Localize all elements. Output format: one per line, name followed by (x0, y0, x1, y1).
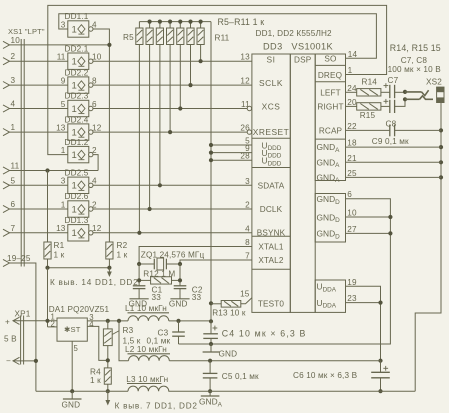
wire: XTAL1 to crystal (139, 247, 252, 265)
svg-text:6: 6 (11, 200, 16, 209)
svg-text:DD2.5: DD2.5 (65, 169, 89, 178)
svg-text:+: + (5, 318, 10, 327)
wire: DD2.3 output to XCS (93, 108, 247, 110)
wire: XTAL2 to crystal (180, 260, 252, 264)
wire: DD1.3 output to BSYNK (93, 232, 252, 234)
svg-text:7: 7 (11, 224, 16, 233)
svg-text:C6 10 мк × 6,3 В: C6 10 мк × 6,3 В (293, 371, 358, 380)
svg-text:GND: GND (62, 401, 81, 410)
capacitor C3 (147, 321, 185, 346)
svg-text:1 к: 1 к (90, 376, 101, 385)
svg-text:25: 25 (347, 169, 357, 178)
svg-text:1: 1 (61, 146, 66, 155)
label C7 C8 value (388, 56, 442, 74)
svg-text:4: 4 (92, 20, 97, 29)
resistor R14 (346, 78, 381, 96)
chip DD3 right pin names (317, 54, 344, 309)
inverter DD2.5 (61, 169, 97, 194)
capacitor C5 (203, 361, 259, 394)
svg-text:24: 24 (347, 84, 357, 93)
label R5-R11 value (218, 17, 265, 27)
svg-text:5: 5 (74, 344, 79, 353)
wire: LPT pin 7 (3, 224, 68, 237)
wire: DD2.5 output to SDATA (93, 184, 252, 186)
ground under C1 (129, 289, 149, 309)
svg-text:1: 1 (348, 66, 353, 75)
capacitor C4 (203, 321, 306, 346)
wire: LPT pin 11 (3, 162, 98, 175)
svg-text:DD2.6: DD2.6 (65, 192, 89, 201)
svg-text:1: 1 (71, 150, 76, 161)
wire: DD2.4 output to XRESET (93, 131, 247, 133)
ground DA1 (62, 391, 82, 409)
svg-text:C4 10 мк × 6,3 В: C4 10 мк × 6,3 В (222, 329, 307, 339)
svg-text:4: 4 (89, 320, 94, 329)
svg-text:DREQ: DREQ (318, 71, 342, 80)
svg-text:R14, R15 15: R14, R15 15 (390, 43, 441, 53)
svg-text:ZQ1 24,576 МГц: ZQ1 24,576 МГц (141, 251, 205, 260)
svg-text:18: 18 (347, 139, 357, 148)
svg-text:6: 6 (92, 100, 97, 109)
wire: LPT pin 3 (3, 76, 68, 89)
svg-text:R1: R1 (54, 241, 65, 250)
wire: DA1 pin4 sense (87, 326, 108, 360)
svg-text:1: 1 (11, 123, 16, 132)
wire: LPT pin 1 (3, 123, 68, 136)
svg-text:SDATA: SDATA (258, 181, 285, 190)
wire: LPT pin 5 (3, 176, 68, 189)
svg-text:✱ST: ✱ST (64, 325, 81, 334)
capacitor C7 (381, 76, 405, 98)
wire: UDDA bus (346, 286, 383, 363)
wire: DD2.2 output to SCLK (93, 84, 252, 86)
svg-text:21: 21 (347, 154, 357, 163)
svg-text:DA1 PQ20VZ51: DA1 PQ20VZ51 (49, 305, 110, 314)
svg-text:11: 11 (11, 162, 20, 171)
svg-text:DCLK: DCLK (260, 205, 283, 214)
svg-text:3: 3 (11, 76, 16, 85)
svg-text:1: 1 (61, 200, 66, 209)
svg-text:XTAL2: XTAL2 (258, 256, 283, 265)
capacitor C8 (381, 99, 405, 129)
wire: DD2.1 output to SI (93, 60, 252, 62)
wire: XS2 sleeve ground bus (415, 103, 443, 392)
svg-text:GND: GND (169, 300, 188, 309)
svg-text:23: 23 (347, 294, 357, 303)
svg-text:R5: R5 (123, 33, 134, 42)
svg-text:DD2.1: DD2.1 (65, 44, 89, 53)
svg-text:DD2.2: DD2.2 (65, 68, 89, 77)
inverter DD1.1 (61, 12, 97, 37)
svg-text:1 к: 1 к (54, 251, 65, 260)
svg-text:C7, C8: C7, C8 (401, 56, 428, 65)
svg-text:R15: R15 (360, 111, 376, 120)
svg-text:XCS: XCS (262, 102, 281, 112)
svg-text:К выв. 7 DD1, DD2: К выв. 7 DD1, DD2 (115, 402, 198, 411)
chip DD3 left pin names (253, 54, 290, 308)
svg-text:DD1.1: DD1.1 (65, 12, 89, 21)
resistor R4 (90, 368, 111, 394)
svg-text:C9 0,1 мк: C9 0,1 мк (372, 137, 409, 146)
wire: LPT pin 2 (3, 52, 68, 65)
wire: DD1.1 output to LPT pin 10 and R2 (93, 29, 112, 242)
svg-text:DD1.3: DD1.3 (65, 216, 89, 225)
svg-text:XS2: XS2 (426, 78, 442, 87)
svg-text:28: 28 (240, 152, 250, 161)
svg-text:−: − (6, 357, 11, 366)
svg-text:C5 0,1 мк: C5 0,1 мк (222, 372, 259, 381)
svg-text:L3 10 мкГн: L3 10 мкГн (126, 375, 168, 384)
wire: DA1 pin3 3.3V output (87, 319, 128, 323)
svg-text:7: 7 (245, 252, 250, 261)
svg-text:10: 10 (11, 36, 21, 45)
capacitor C1 (133, 286, 163, 303)
wire: ground rail (36, 390, 415, 392)
svg-text:100 мк × 10 В: 100 мк × 10 В (388, 65, 442, 74)
pin bubble XCS (247, 106, 251, 110)
connector XS1 LPT label (8, 27, 45, 36)
svg-text:XS1 "LPT": XS1 "LPT" (8, 27, 45, 36)
svg-text:DD3 VS1001K: DD3 VS1001K (263, 42, 334, 52)
ground under C4 (203, 344, 238, 359)
label DD1 DD2 type (256, 29, 333, 38)
svg-text:SCLK: SCLK (259, 78, 283, 88)
svg-text:1: 1 (71, 24, 76, 35)
svg-text:1: 1 (71, 57, 76, 68)
wire: GNDA pin 21 (346, 161, 442, 163)
svg-text:DD2.4: DD2.4 (65, 115, 89, 124)
resistor R3 (103, 321, 140, 368)
wire: UDDD 3.3V vertical bus (209, 22, 252, 322)
resistor R1 (44, 171, 65, 260)
svg-text:R13 10 к: R13 10 к (212, 309, 246, 318)
svg-text:L2 10 мкГн: L2 10 мкГн (125, 345, 167, 354)
svg-text:C7: C7 (388, 76, 399, 85)
resistor network R5-R11 (123, 20, 230, 235)
svg-text:12: 12 (92, 124, 102, 133)
svg-text:11: 11 (57, 53, 66, 62)
svg-text:XTAL1: XTAL1 (258, 243, 283, 252)
wire: LPT pins 19-25 to ground rail (3, 254, 36, 391)
svg-text:1 к: 1 к (117, 251, 128, 260)
svg-text:R5–R11 1 к: R5–R11 1 к (218, 17, 265, 27)
ground GNDA (199, 391, 223, 408)
chip DD3 left pin numbers (240, 53, 250, 299)
svg-text:1: 1 (71, 204, 76, 215)
op-amp U1 chip DD3 body (252, 54, 346, 312)
svg-text:13: 13 (56, 124, 66, 133)
wire: GNDA pin 25 (346, 176, 442, 178)
svg-text:4: 4 (245, 224, 250, 233)
wire: DD1.2 output to LPT pin 11 (45, 155, 98, 173)
resistor R2 (106, 241, 128, 260)
svg-text:5: 5 (61, 100, 66, 109)
capacitor C9 (346, 125, 442, 147)
wire: GNDA pin 18 (346, 146, 442, 148)
svg-text:3: 3 (61, 20, 66, 29)
svg-text:13: 13 (240, 53, 250, 62)
svg-text:2: 2 (92, 146, 97, 155)
wire: DD2.6 output to DCLK (93, 208, 252, 210)
svg-text:6: 6 (347, 190, 352, 199)
svg-text:DD1.2: DD1.2 (65, 138, 89, 147)
svg-text:XRESET: XRESET (253, 127, 290, 137)
svg-text:DD1, DD2 К555ЛН2: DD1, DD2 К555ЛН2 (256, 29, 333, 38)
svg-text:5 В: 5 В (4, 335, 17, 344)
svg-text:GND: GND (219, 350, 238, 359)
inductor L2 (119, 321, 381, 363)
resistor R12 (137, 264, 182, 286)
wire: LPT pin 10 (3, 36, 109, 49)
wire: LPT pin 6 (3, 200, 68, 213)
wire: GNDD bus to ground (179, 199, 393, 344)
power: to pin 7 of DD1 DD2 (105, 391, 197, 410)
svg-text:10: 10 (92, 53, 102, 62)
crystal ZQ1 label (141, 251, 205, 260)
inverter DD1.3 (56, 216, 102, 241)
svg-text:R14: R14 (362, 78, 378, 87)
svg-text:RIGHT: RIGHT (317, 102, 343, 111)
inductor L1 (125, 304, 213, 323)
svg-text:2: 2 (51, 320, 56, 329)
crystal ZQ1 (137, 258, 182, 270)
svg-text:3: 3 (245, 177, 250, 186)
svg-text:LEFT: LEFT (320, 88, 341, 97)
svg-text:2: 2 (245, 201, 250, 210)
svg-text:2: 2 (92, 200, 97, 209)
ground under C2 (169, 289, 190, 309)
connector XS2 jack (403, 78, 444, 103)
svg-text:14: 14 (348, 50, 358, 59)
svg-text:R11: R11 (215, 34, 230, 43)
svg-text:BSYNK: BSYNK (257, 229, 286, 238)
inverter DD2.3 (61, 92, 97, 117)
svg-text:13: 13 (56, 224, 66, 233)
wire: DA1 pin5 to ground (70, 341, 74, 393)
svg-text:19–25: 19–25 (7, 254, 31, 263)
svg-text:2: 2 (11, 52, 16, 61)
voltage regulator DA1 (49, 305, 110, 353)
inverter DD2.6 (61, 192, 97, 217)
svg-text:27: 27 (347, 225, 357, 234)
svg-text:33: 33 (152, 293, 162, 302)
svg-text:20: 20 (347, 98, 357, 107)
inductor L3 (126, 375, 168, 391)
svg-text:15: 15 (240, 290, 250, 299)
wire: SO loop (pin 14 to DD1.1 input) (59, 14, 377, 59)
svg-text:1: 1 (71, 228, 76, 239)
resistor R13 (209, 298, 252, 318)
connector XS1 cable lines (21, 39, 24, 267)
inverter DD2.1 (57, 44, 102, 69)
wire: R1 R2 to +5V rail (45, 259, 111, 327)
svg-text:4: 4 (92, 177, 97, 186)
capacitor C2 (174, 286, 203, 303)
svg-text:3: 3 (61, 177, 66, 186)
svg-text:8: 8 (92, 77, 97, 86)
inverter DD1.2 (61, 138, 97, 163)
svg-text:5: 5 (11, 176, 16, 185)
capacitor C6 (293, 361, 390, 394)
svg-text:12: 12 (92, 224, 102, 233)
chip DD3 right pin numbers (347, 84, 357, 303)
svg-text:SI: SI (267, 54, 276, 64)
svg-text:R2: R2 (117, 241, 128, 250)
svg-text:1: 1 (71, 81, 76, 92)
svg-text:RCAP: RCAP (319, 126, 343, 135)
label R14 R15 value (390, 43, 441, 53)
wire: LPT pin 4 (3, 100, 68, 113)
svg-text:8: 8 (245, 238, 250, 247)
inverter DD2.2 (61, 68, 97, 93)
svg-text:1: 1 (71, 181, 76, 192)
pin bubble XRESET (247, 130, 251, 134)
inverter DD2.4 (56, 115, 102, 140)
svg-text:К выв. 14 DD1, DD2: К выв. 14 DD1, DD2 (50, 278, 138, 287)
svg-text:4: 4 (11, 100, 16, 109)
wire: XP1 minus to rail (13, 359, 38, 363)
svg-text:DD2.3: DD2.3 (65, 92, 89, 101)
wire: XP1 plus to DA1 (13, 319, 57, 327)
svg-text:10: 10 (347, 209, 357, 218)
svg-text:L1 10 мкГн: L1 10 мкГн (125, 304, 167, 313)
svg-text:TEST0: TEST0 (258, 300, 285, 309)
label DD3 type (263, 42, 334, 52)
svg-text:SO: SO (324, 54, 336, 63)
svg-text:19: 19 (347, 278, 357, 287)
svg-text:9: 9 (61, 77, 66, 86)
svg-text:12: 12 (240, 77, 250, 86)
svg-text:XP1: XP1 (15, 310, 31, 319)
svg-text:33: 33 (192, 293, 202, 302)
wire: DREQ loop (pin 1 to DD1.2 input) (48, 5, 387, 154)
svg-text:R12 1 М: R12 1 М (143, 269, 175, 278)
svg-text:R3: R3 (123, 326, 134, 335)
svg-text:DSP: DSP (294, 56, 312, 65)
svg-text:1: 1 (71, 104, 76, 115)
connector XP1 (4, 310, 31, 366)
power: to pin 14 of DD1 DD2 (50, 268, 138, 287)
resistor R15 (346, 103, 381, 120)
svg-text:22: 22 (347, 122, 357, 131)
